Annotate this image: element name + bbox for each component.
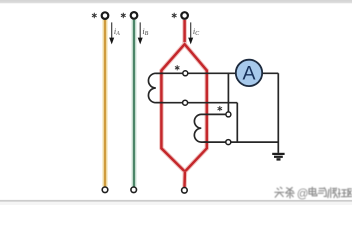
terminal: CT2 secondary k1	[226, 112, 231, 117]
wire: CT1 secondary bottom	[156, 102, 238, 104]
terminal: CT2 secondary k2	[226, 140, 231, 145]
polarity mark phase B	[121, 13, 125, 18]
phase C top stub (red)	[182, 20, 187, 44]
wire: CT2 secondary bottom to ground rail	[204, 141, 279, 143]
glyph dian	[309, 187, 317, 196]
polarity mark CT2	[218, 106, 222, 110]
wire: CT1 secondary top to ammeter left	[156, 72, 236, 74]
svg-text:iC: iC	[193, 27, 200, 37]
phase C split loop through CT primaries (red hexagon)	[161, 44, 206, 171]
current arrow iA	[109, 22, 114, 44]
terminal: phase B bottom	[131, 187, 137, 193]
terminal: phase B top	[131, 12, 138, 19]
bottom gray band	[0, 200, 352, 205]
wire: CT1 bottom down-drop	[236, 103, 238, 142]
phase A conductor (orange)	[102, 20, 107, 187]
glyph qi	[318, 188, 326, 197]
svg-text:A: A	[242, 63, 255, 85]
top gray band	[0, 0, 352, 4]
svg-text:iA: iA	[114, 27, 120, 37]
current arrow iB	[138, 22, 143, 44]
terminal: CT1 secondary k1	[183, 71, 188, 76]
wire: ammeter right	[262, 72, 278, 74]
terminal: CT1 secondary k2	[183, 100, 188, 105]
terminal: phase C top	[181, 12, 188, 19]
watermark	[275, 187, 352, 200]
phase B conductor (green)	[131, 20, 136, 187]
terminal: phase A top	[102, 12, 109, 19]
current arrow iC	[188, 22, 193, 44]
ground	[272, 154, 284, 160]
CT1 secondary winding	[148, 73, 163, 102]
phase C bottom stub (red)	[182, 172, 187, 188]
terminal: phase A bottom	[102, 187, 108, 193]
wire: branch down to CT2 top terminal	[227, 73, 229, 112]
ammeter PA	[236, 60, 262, 86]
glyph qu	[348, 189, 352, 197]
terminal: phase C bottom	[182, 188, 188, 194]
glyph tou	[275, 187, 284, 197]
glyph she	[338, 189, 347, 197]
glyph tiao	[286, 188, 294, 199]
wire: CT2 top terminal to coil	[207, 113, 226, 115]
CT2 secondary winding	[194, 114, 207, 142]
svg-text:iB: iB	[142, 27, 148, 37]
svg-text:@: @	[297, 188, 309, 200]
polarity mark CT1	[175, 66, 179, 70]
polarity mark phase A	[92, 13, 96, 18]
wire: right vertical to ground	[277, 73, 279, 153]
glyph wei	[328, 188, 338, 198]
polarity mark phase C	[172, 13, 176, 18]
